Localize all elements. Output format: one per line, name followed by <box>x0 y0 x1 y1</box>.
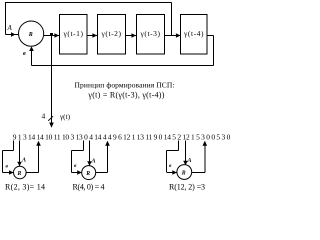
unit 1: arrowhead into adder top <box>17 162 22 167</box>
svg-text:γ(t) = R(γ(t-3), γ(t-4)): γ(t) = R(γ(t-3), γ(t-4)) <box>87 90 164 99</box>
unit 2: arrowhead output up <box>105 141 110 146</box>
unit 3: wire left route horizontal <box>167 150 179 152</box>
unit 3: wire output right <box>192 172 205 174</box>
arrowhead into adder bottom <box>29 46 34 51</box>
wire adder output to register 1 <box>44 35 59 37</box>
unit 2: adder circle R <box>82 166 96 180</box>
unit 2: wire left route vertical <box>71 151 73 173</box>
junction tick on output drop <box>50 33 53 36</box>
register block gamma(t-1) <box>60 15 88 55</box>
wire left vertical <box>5 3 7 35</box>
register block gamma(t-2) <box>98 15 126 55</box>
unit 2: arrowhead into adder top <box>87 161 92 166</box>
svg-text:R(2, 3)= 14: R(2, 3)= 14 <box>5 183 45 192</box>
wire bottom feedback vertical right <box>213 36 215 66</box>
wire register4 output right <box>207 35 214 37</box>
unit 2: wire output right <box>96 172 108 174</box>
unit 3: arrowhead into adder left <box>172 170 177 175</box>
unit 3: wire top tap down into adder <box>185 141 187 166</box>
svg-text:A: A <box>7 24 13 32</box>
unit 3: arrowhead into adder top <box>183 161 188 166</box>
svg-text:γ(t-4): γ(t-4) <box>183 29 204 38</box>
svg-text:R: R <box>28 32 33 38</box>
wire register3 to register4 with feedback junction <box>165 35 181 37</box>
arrowhead into register 1 <box>54 33 59 38</box>
unit 3: wire into adder left <box>167 172 177 174</box>
svg-text:R: R <box>85 171 90 177</box>
wire register1 to register2 <box>87 35 97 37</box>
wire feedback tap vertical <box>171 3 173 36</box>
svg-text:A: A <box>187 158 192 164</box>
unit 1: wire output up <box>38 142 40 173</box>
unit 2: wire output up <box>107 142 109 173</box>
arrowhead into register 3 <box>131 33 136 38</box>
arrowhead into register 2 <box>92 33 97 38</box>
bus width slash <box>48 116 53 121</box>
unit 1: wire left route vertical <box>2 151 4 173</box>
unit 3: wire left route vertical <box>166 151 168 173</box>
wire bottom feedback horizontal <box>32 65 214 67</box>
register block gamma(t-4) <box>181 15 208 55</box>
svg-text:γ(t-3): γ(t-3) <box>140 29 161 38</box>
arrowhead into register 4 <box>176 33 181 38</box>
unit 3: arrowhead output up <box>203 141 208 146</box>
wire gamma(t) output drop <box>51 36 53 126</box>
svg-text:9 1 3 14 14 10 11 10 3 13 0 4: 9 1 3 14 14 10 11 10 3 13 0 4 14 4 4 9 6… <box>13 133 231 142</box>
svg-text:A: A <box>21 158 26 164</box>
svg-text:R(12, 2) =3: R(12, 2) =3 <box>169 183 205 192</box>
svg-text:в: в <box>23 51 26 57</box>
unit 3: adder circle R <box>177 165 192 180</box>
unit 1: wire into adder left <box>3 172 14 174</box>
svg-text:4: 4 <box>42 112 46 121</box>
unit 2: arrowhead into adder left <box>77 170 82 175</box>
svg-text:R(4, 0) = 4: R(4, 0) = 4 <box>73 183 105 192</box>
svg-text:γ(t-2): γ(t-2) <box>101 29 122 38</box>
unit 1: wire top tap down into adder <box>19 141 21 167</box>
wire top feedback horizontal <box>5 2 172 4</box>
unit 2: wire into adder left <box>72 172 82 174</box>
svg-text:A: A <box>91 159 96 165</box>
svg-text:R: R <box>181 171 186 177</box>
unit 2: wire top tap down into adder <box>89 141 91 166</box>
unit 2: wire left route horizontal <box>72 150 84 152</box>
wire bottom feedback up into adder <box>31 49 33 66</box>
unit 1: wire left route horizontal <box>3 150 14 152</box>
svg-text:Принцип формирования ПСП:: Принцип формирования ПСП: <box>75 80 175 89</box>
register block gamma(t-3) <box>137 15 165 55</box>
arrowhead gamma(t) down <box>49 123 54 128</box>
wire register2 to register3 <box>126 35 137 37</box>
unit 3: wire output up <box>204 142 206 173</box>
unit 1: arrowhead output up <box>36 141 41 146</box>
unit 1: arrowhead into adder left <box>9 170 14 175</box>
wire A input into adder <box>6 34 20 36</box>
arrowhead A input <box>11 32 16 37</box>
unit 1: wire left tap down <box>13 141 15 151</box>
unit 1: wire output right <box>26 172 38 174</box>
unit 3: wire left tap down <box>178 141 180 151</box>
op-amp adder U1 (function R) <box>19 21 44 46</box>
svg-text:R: R <box>17 171 22 177</box>
unit 1: adder circle R <box>13 166 26 179</box>
svg-text:γ(t-1): γ(t-1) <box>63 29 84 38</box>
unit 2: wire left tap down <box>83 141 85 151</box>
svg-text:γ(t): γ(t) <box>59 113 71 121</box>
